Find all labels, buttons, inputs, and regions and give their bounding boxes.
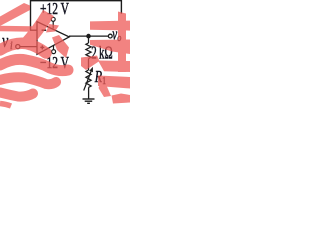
node +12V terminal bbox=[51, 17, 55, 21]
wire inverting input bbox=[30, 29, 37, 31]
resistor 2kOhm load bbox=[86, 43, 91, 59]
minus sign bbox=[42, 29, 47, 31]
wire between resistors bbox=[88, 59, 90, 70]
node vi terminal bbox=[16, 45, 20, 49]
label vo bbox=[112, 25, 117, 44]
watermark bbox=[0, 3, 130, 106]
label R1 bbox=[94, 68, 102, 86]
ground bbox=[83, 99, 95, 103]
node output junction bbox=[86, 34, 91, 39]
wire +12V stem bbox=[52, 21, 54, 28]
label vi bbox=[2, 30, 9, 52]
wire noninverting input bbox=[20, 46, 37, 48]
op-amp U1 bbox=[37, 22, 69, 55]
wire output to resistor bbox=[88, 36, 90, 43]
node vo terminal bbox=[108, 34, 112, 38]
label +12V bbox=[40, 0, 69, 19]
wire to ground bbox=[88, 87, 90, 99]
wire output bbox=[69, 35, 108, 37]
node -12V terminal bbox=[52, 50, 56, 54]
label 2kOhm bbox=[91, 44, 112, 63]
wire feedback loop top bbox=[31, 1, 122, 31]
resistor R1 variable bbox=[86, 70, 91, 87]
plus sign bbox=[40, 45, 44, 49]
wire -12V stem bbox=[53, 46, 55, 50]
label -12V bbox=[40, 54, 69, 73]
arrow RL variable bbox=[84, 72, 91, 91]
